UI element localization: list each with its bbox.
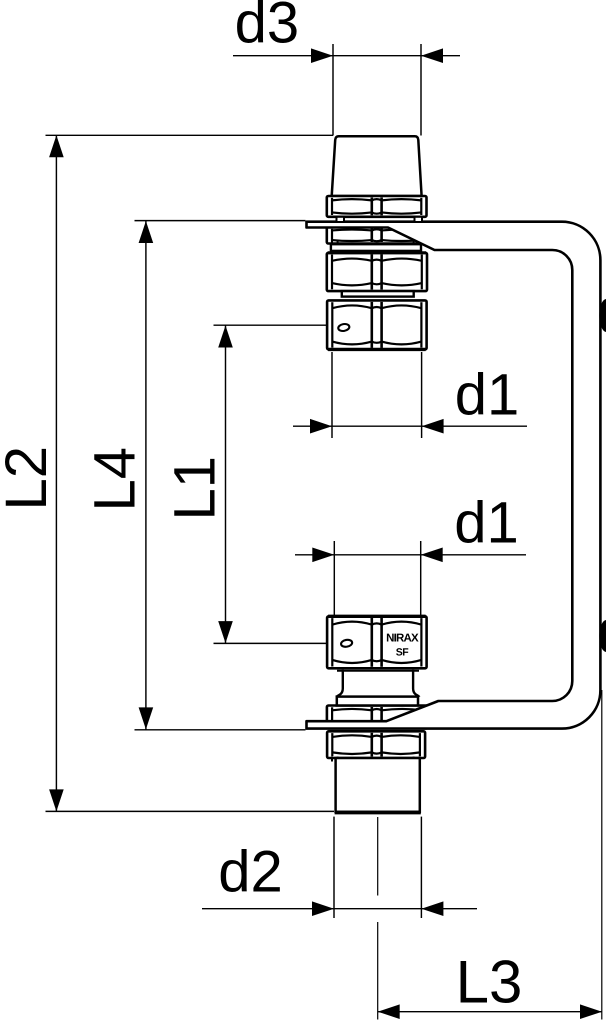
svg-text:SF: SF <box>396 646 410 658</box>
svg-text:d2: d2 <box>218 840 283 905</box>
svg-text:d3: d3 <box>235 0 300 56</box>
svg-text:L1: L1 <box>163 456 228 521</box>
svg-text:NIRAX: NIRAX <box>386 632 419 644</box>
svg-text:d1: d1 <box>454 491 519 556</box>
svg-text:L2: L2 <box>0 446 59 511</box>
svg-text:L4: L4 <box>83 447 148 512</box>
svg-text:L3: L3 <box>456 949 523 1016</box>
svg-text:d1: d1 <box>455 363 520 428</box>
